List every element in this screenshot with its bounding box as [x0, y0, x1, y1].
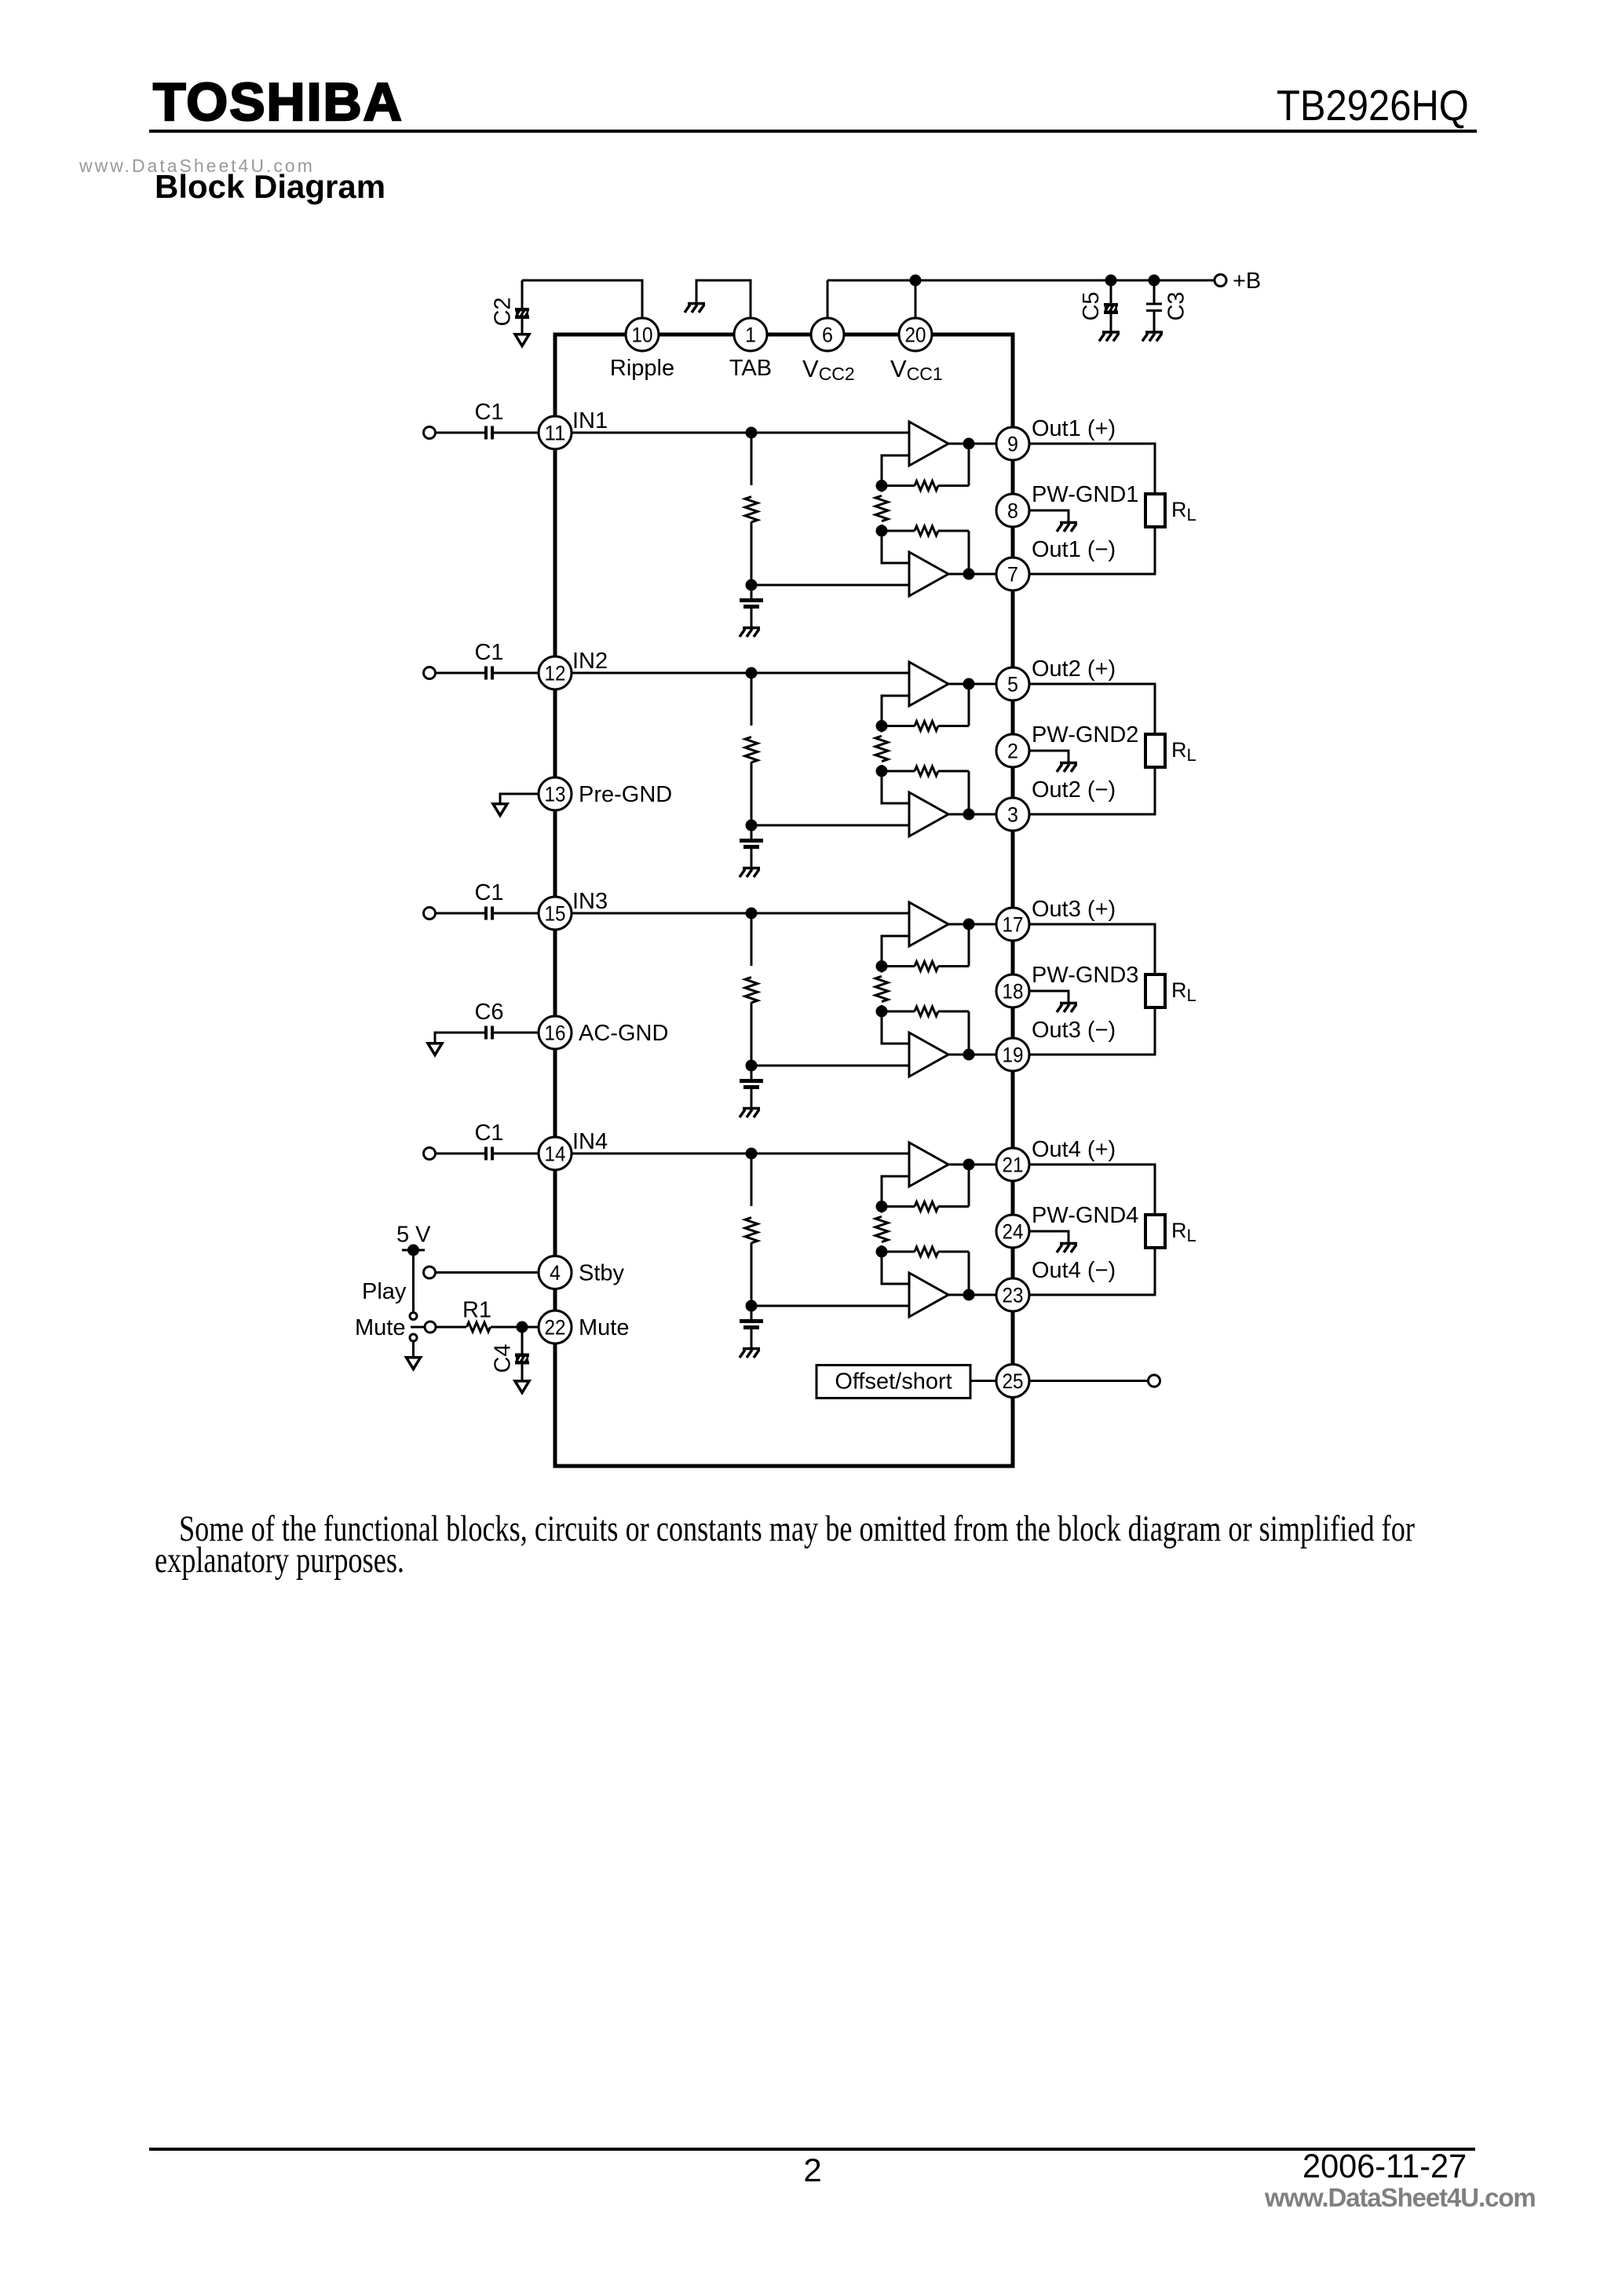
ground arrow below C4	[515, 1381, 529, 1393]
wire IN3 to amplifier	[572, 912, 909, 915]
capacitor C1 (channel 2)	[436, 672, 485, 675]
pin 3 Out2 (-)	[996, 798, 1029, 831]
output node lower (channel 4)	[948, 1294, 996, 1296]
pin 14 IN4	[539, 1137, 572, 1170]
junction above pin 20	[910, 275, 922, 287]
op-amp upper (channel 4)	[909, 1143, 948, 1186]
svg-text:22: 22	[545, 1316, 566, 1340]
feedback resistor upper (channel 4)	[882, 1205, 915, 1208]
wire to lower amp input (channel 1)	[751, 584, 909, 587]
svg-text:PW-GND1: PW-GND1	[1032, 482, 1138, 507]
capacitor C6	[484, 1026, 494, 1040]
svg-text:20: 20	[905, 324, 926, 347]
watermark top	[79, 155, 315, 177]
svg-text:16: 16	[545, 1022, 566, 1045]
svg-text:C3: C3	[1164, 291, 1189, 320]
feedback resistor lower (channel 4)	[882, 1251, 915, 1253]
pin 21 Out4 (+)	[996, 1148, 1029, 1181]
svg-text:Out2 (−): Out2 (−)	[1032, 777, 1116, 803]
svg-text:4: 4	[550, 1261, 561, 1285]
diag terminal	[1149, 1375, 1160, 1387]
svg-text:C1: C1	[474, 880, 503, 905]
svg-text:Offset/short: Offset/short	[835, 1369, 952, 1395]
node bias bottom (channel 4)	[746, 1300, 758, 1312]
note paragraph line 1	[179, 1511, 1415, 1548]
op-amp lower (channel 1)	[909, 552, 948, 596]
wire IN4 to amplifier	[572, 1153, 909, 1155]
svg-text:C5: C5	[1079, 291, 1104, 320]
feedback resistor upper (channel 2)	[882, 725, 915, 727]
feedback resistor upper (channel 3)	[882, 965, 915, 967]
capacitor C4	[521, 1327, 524, 1354]
svg-text:Mute: Mute	[355, 1315, 405, 1340]
feedback resistor lower (channel 3)	[882, 1011, 915, 1013]
wire to lower amp input (channel 4)	[751, 1305, 909, 1307]
ground at PW-GND2	[1029, 751, 1069, 762]
pin 19 Out3 (-)	[996, 1038, 1029, 1071]
feedback resistor vertical (channel 1)	[875, 495, 888, 521]
svg-text:Out3 (+): Out3 (+)	[1032, 897, 1116, 922]
svg-text:15: 15	[545, 902, 566, 926]
switch ground arrow	[412, 1341, 415, 1356]
svg-text:R1: R1	[462, 1298, 491, 1323]
ground below C5	[1099, 332, 1120, 342]
svg-text:5: 5	[1007, 673, 1018, 696]
ground at PW-GND4	[1029, 1231, 1069, 1242]
pin 11 IN1	[539, 416, 572, 449]
svg-text:10: 10	[632, 324, 653, 347]
node bias bottom (channel 1)	[746, 579, 758, 591]
note paragraph line 2	[155, 1542, 404, 1579]
wire IN2 to amplifier	[572, 672, 909, 675]
svg-text:IN3: IN3	[572, 889, 608, 914]
svg-text:19: 19	[1003, 1044, 1024, 1067]
node bias bottom (channel 3)	[746, 1060, 758, 1072]
junction at C5	[1105, 275, 1117, 287]
ground below bias capacitor (channel 1)	[740, 628, 760, 638]
op-amp upper (channel 1)	[909, 422, 948, 466]
pin 12 IN2	[539, 656, 572, 689]
pin 7 Out1 (-)	[996, 558, 1029, 590]
svg-text:7: 7	[1007, 563, 1018, 587]
output node lower (channel 3)	[948, 1054, 996, 1056]
pin 22 Mute	[539, 1311, 572, 1344]
switch contact Play	[410, 1313, 417, 1320]
bias capacitor (channel 2)	[751, 825, 753, 839]
svg-text:5 V: 5 V	[396, 1223, 431, 1248]
svg-text:AC-GND: AC-GND	[579, 1021, 668, 1046]
pin 13 Pre-GND	[500, 794, 539, 803]
pin 23 Out4 (-)	[996, 1278, 1029, 1311]
svg-text:Out1 (+): Out1 (+)	[1032, 416, 1116, 441]
bias capacitor (channel 1)	[751, 585, 753, 598]
svg-text:Ripple: Ripple	[610, 356, 674, 381]
svg-text:24: 24	[1003, 1220, 1024, 1244]
op-amp upper (channel 3)	[909, 902, 948, 946]
feedback left rail (channel 3)	[882, 936, 909, 967]
output node lower (channel 1)	[948, 573, 996, 576]
IC block TB2926HQ outline	[555, 335, 1013, 1466]
output node upper (channel 2)	[948, 683, 996, 686]
page number	[795, 2152, 830, 2189]
svg-text:14: 14	[545, 1143, 566, 1166]
node input divider (channel 3)	[746, 908, 758, 919]
input terminal IN3	[424, 908, 436, 919]
feedback resistor vertical (channel 2)	[875, 736, 888, 761]
svg-text:C6: C6	[474, 1000, 503, 1025]
feedback left rail (channel 2)	[882, 696, 909, 726]
op-amp lower (channel 4)	[909, 1273, 948, 1317]
input bias resistor (channel 1)	[751, 433, 753, 485]
footer rule	[149, 2148, 1475, 2151]
switch pole	[425, 1322, 436, 1333]
svg-text:IN2: IN2	[572, 649, 608, 674]
svg-text:1: 1	[745, 324, 756, 347]
op-amp lower (channel 2)	[909, 792, 948, 836]
output node upper (channel 4)	[948, 1164, 996, 1166]
switch wire from 5V	[412, 1250, 415, 1313]
output node upper (channel 1)	[948, 443, 996, 445]
pin 24 PW-GND4	[996, 1215, 1029, 1248]
capacitor C3	[1153, 280, 1156, 303]
output node lower (channel 2)	[948, 813, 996, 816]
capacitor C2	[521, 280, 524, 308]
pin 5 Out2 (+)	[996, 667, 1029, 700]
ground below C3	[1142, 332, 1163, 342]
ground at PW-GND1	[1029, 510, 1069, 521]
pin 18 PW-GND3	[996, 974, 1029, 1007]
wire Vcc1 pin 20 riser	[915, 280, 917, 318]
svg-text:25: 25	[1003, 1369, 1024, 1393]
pin 20 Vcc1	[899, 318, 932, 351]
capacitor C1 (channel 3)	[436, 912, 485, 915]
svg-text:Mute: Mute	[579, 1315, 629, 1340]
svg-text:IN4: IN4	[572, 1129, 608, 1154]
svg-text:Out4 (+): Out4 (+)	[1032, 1137, 1116, 1162]
svg-text:Stby: Stby	[579, 1261, 625, 1286]
pin 4 Stby	[424, 1267, 436, 1278]
svg-text:3: 3	[1007, 803, 1018, 827]
pin 10 Ripple	[626, 318, 659, 351]
feedback resistor lower (channel 1)	[882, 530, 915, 532]
pin 1 TAB	[734, 318, 767, 351]
feedback left rail (channel 4)	[882, 1176, 909, 1207]
svg-text:21: 21	[1003, 1153, 1024, 1177]
pin 8 PW-GND1	[996, 494, 1029, 527]
svg-text:RL: RL	[1171, 978, 1196, 1005]
node R1/C4	[517, 1322, 528, 1333]
svg-text:C1: C1	[474, 1121, 503, 1146]
wire to lower amp input (channel 2)	[751, 824, 909, 827]
ground at PW-GND3	[1029, 991, 1069, 1002]
input bias resistor (channel 2)	[751, 673, 753, 726]
date	[1302, 2148, 1467, 2186]
svg-text:Out2 (+): Out2 (+)	[1032, 656, 1116, 682]
capacitor C1 (channel 4)	[436, 1153, 485, 1155]
wire IN1 to amplifier	[572, 432, 909, 434]
ground arrow at AC-GND	[428, 1044, 442, 1055]
svg-text:IN1: IN1	[572, 408, 608, 433]
junction at C3	[1149, 275, 1160, 287]
load resistor RL (channel 2)	[1029, 684, 1155, 734]
+B terminal	[1215, 275, 1226, 287]
feedback resistor vertical (channel 4)	[875, 1216, 888, 1241]
bias capacitor (channel 4)	[751, 1306, 753, 1319]
output node upper (channel 3)	[948, 923, 996, 926]
op-amp lower (channel 3)	[909, 1033, 948, 1077]
pin 16 AC-GND	[494, 1032, 539, 1034]
switch contact Mute	[410, 1334, 417, 1341]
TOSHIBA logo	[153, 71, 404, 133]
wire TAB pin 1 to ground	[696, 280, 751, 318]
capacitor C1 (channel 1)	[436, 432, 485, 434]
svg-text:C4: C4	[491, 1344, 516, 1373]
pin 9 Out1 (+)	[996, 427, 1029, 460]
feedback left rail (channel 1)	[882, 455, 909, 486]
feedback resistor vertical (channel 3)	[875, 976, 888, 1001]
svg-text:VCC2: VCC2	[802, 355, 855, 384]
svg-text:Play: Play	[362, 1279, 407, 1304]
svg-text:13: 13	[545, 783, 566, 806]
svg-text:VCC1: VCC1	[890, 355, 943, 384]
svg-text:C1: C1	[474, 400, 503, 425]
ground below bias capacitor (channel 3)	[740, 1109, 760, 1118]
svg-text:23: 23	[1003, 1284, 1024, 1307]
pin 17 Out3 (+)	[996, 908, 1029, 941]
svg-text:8: 8	[1007, 499, 1018, 523]
svg-text:12: 12	[545, 662, 566, 686]
pin 15 IN3	[539, 897, 572, 930]
Offset/short block	[816, 1366, 970, 1398]
feedback resistor lower (channel 2)	[882, 770, 915, 773]
input terminal IN4	[424, 1148, 436, 1160]
svg-text:Out1 (−): Out1 (−)	[1032, 537, 1116, 562]
node bias bottom (channel 2)	[746, 820, 758, 832]
part number TB2926HQ	[1277, 80, 1469, 130]
node input divider (channel 4)	[746, 1148, 758, 1160]
input terminal IN1	[424, 427, 436, 439]
load resistor RL (channel 1)	[1029, 444, 1155, 494]
svg-text:C2: C2	[491, 297, 516, 326]
resistor R1	[436, 1326, 466, 1329]
svg-text:RL: RL	[1171, 1219, 1196, 1245]
svg-text:Pre-GND: Pre-GND	[579, 782, 672, 807]
supply wire to +B	[827, 280, 1215, 282]
svg-text:PW-GND2: PW-GND2	[1032, 722, 1138, 748]
bias capacitor (channel 3)	[751, 1066, 753, 1079]
watermark bottom	[1265, 2183, 1536, 2213]
svg-text:PW-GND4: PW-GND4	[1032, 1203, 1138, 1228]
svg-text:17: 17	[1003, 913, 1024, 937]
feedback resistor upper (channel 1)	[882, 484, 915, 487]
input bias resistor (channel 4)	[751, 1153, 753, 1206]
header rule	[149, 130, 1477, 133]
svg-text:Out3 (−): Out3 (−)	[1032, 1018, 1116, 1043]
wire to lower amp input (channel 3)	[751, 1065, 909, 1067]
svg-text:TAB: TAB	[729, 356, 772, 381]
Block Diagram heading	[155, 168, 385, 206]
svg-text:11: 11	[545, 422, 566, 445]
svg-text:Out4 (−): Out4 (−)	[1032, 1258, 1116, 1283]
load resistor RL (channel 3)	[1029, 924, 1155, 974]
input terminal IN2	[424, 667, 436, 679]
svg-text:PW-GND3: PW-GND3	[1032, 963, 1138, 988]
svg-text:RL: RL	[1171, 738, 1196, 765]
ground below bias capacitor (channel 2)	[740, 868, 760, 878]
svg-text:2: 2	[1007, 740, 1018, 763]
input bias resistor (channel 3)	[751, 913, 753, 966]
svg-text:18: 18	[1003, 980, 1024, 1004]
ground at TAB	[685, 304, 705, 313]
node input divider (channel 2)	[746, 667, 758, 679]
pin 25 diagnostic output	[996, 1365, 1029, 1398]
svg-text:C1: C1	[474, 640, 503, 665]
pin 6 Vcc2	[811, 318, 844, 351]
ground below bias capacitor (channel 4)	[740, 1349, 760, 1358]
node input divider (channel 1)	[746, 427, 758, 439]
svg-text:+B: +B	[1233, 269, 1261, 294]
svg-text:9: 9	[1007, 433, 1018, 456]
svg-text:RL: RL	[1171, 498, 1196, 525]
op-amp upper (channel 2)	[909, 662, 948, 706]
pin 2 PW-GND2	[996, 734, 1029, 767]
svg-text:6: 6	[822, 324, 833, 347]
wire C2 to Ripple pin 10	[522, 280, 642, 318]
load resistor RL (channel 4)	[1029, 1164, 1155, 1215]
capacitor C5	[1110, 280, 1112, 303]
ground arrow below C2	[515, 335, 529, 346]
wire Vcc2 pin 6 riser	[827, 280, 829, 318]
